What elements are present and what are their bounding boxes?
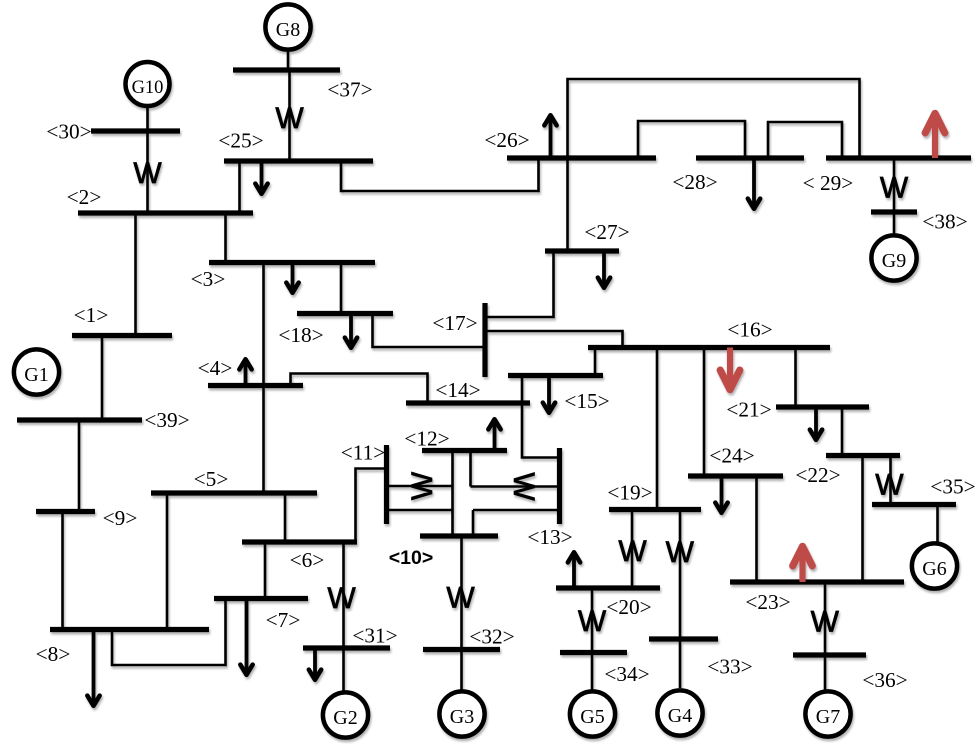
bus 11 bar <box>384 445 389 524</box>
svg-text:G5: G5 <box>580 706 604 728</box>
wire bus 8 to bus 7 <box>112 599 226 666</box>
svg-text:G8: G8 <box>276 19 300 41</box>
bus 6 bar <box>242 539 357 544</box>
svg-text:<30>: <30> <box>46 120 91 144</box>
bus 19 bar <box>609 507 701 512</box>
bus 33 bar <box>649 636 718 641</box>
wire bus 28 to bus 29 <box>768 122 842 158</box>
arrow red bus 29 <box>925 113 945 158</box>
svg-text:G4: G4 <box>668 705 692 727</box>
generator G9 <box>871 235 916 280</box>
bus 31 bar <box>303 645 390 650</box>
load arrow red bus 16 <box>720 348 740 390</box>
svg-text:<21>: <21> <box>726 398 771 422</box>
generator G2 <box>323 692 368 737</box>
svg-text:<24>: <24> <box>709 444 754 468</box>
bus 1 bar <box>72 333 172 338</box>
wire bus 15 to bus 14 to bus 13 <box>522 376 560 458</box>
generator G6 <box>912 543 957 588</box>
arrow injection bus 12 <box>488 419 500 450</box>
wire bus 13 to bus 10 arm <box>473 509 560 512</box>
bus 27 bar <box>545 248 619 253</box>
bus 20 bar <box>556 585 660 590</box>
bus 4 bar <box>208 383 303 388</box>
svg-text:G9: G9 <box>882 250 906 272</box>
bus 23 bar <box>730 579 904 584</box>
svg-text:W: W <box>618 535 647 568</box>
wire bus 26 to bus 29 (top link) <box>568 79 860 158</box>
svg-text:<23>: <23> <box>745 590 790 614</box>
svg-text:W: W <box>880 172 909 205</box>
wire bus 3 to bus 4 to bus 5 <box>262 263 265 494</box>
wire bus 37 to bus 25 (via transformer) <box>288 70 291 161</box>
wire bus 23 to bus 36 to G7 <box>824 582 827 691</box>
svg-text:<18>: <18> <box>278 323 323 347</box>
load arrow bus 18 <box>345 314 357 348</box>
bus 8 bar <box>50 627 209 632</box>
bus 32 bar <box>423 647 500 652</box>
wire bus 10 to bus 32 to G3 <box>460 536 463 692</box>
svg-text:G7: G7 <box>816 706 840 728</box>
generator G3 <box>439 691 484 736</box>
wire bus 17 to bus 27 <box>485 251 554 317</box>
arrow red bus 23 <box>793 546 813 582</box>
bus 36 bar <box>793 652 866 657</box>
load arrow bus 25 <box>255 161 267 194</box>
wire bus 16 to bus 15 <box>594 348 597 376</box>
svg-text:<3>: <3> <box>191 267 226 291</box>
bus 35 bar <box>872 502 956 507</box>
wire bus 4 to bus 14 <box>291 374 428 404</box>
svg-text:W: W <box>446 582 475 615</box>
bus 16 bar <box>588 345 830 350</box>
svg-text:<39>: <39> <box>144 408 189 432</box>
svg-text:<37>: <37> <box>327 78 372 102</box>
svg-text:<5>: <5> <box>194 467 229 491</box>
svg-text:<2>: <2> <box>67 185 102 209</box>
bus 30 bar <box>91 128 180 133</box>
svg-text:<26>: <26> <box>484 128 529 152</box>
svg-text:W: W <box>275 102 304 135</box>
bus 9 bar <box>36 509 95 514</box>
svg-text:<4>: <4> <box>198 356 233 380</box>
wire bus 39 to bus 9 <box>78 420 81 512</box>
wire bus 6 to bus 11 <box>356 469 387 543</box>
svg-text:G10: G10 <box>132 78 164 98</box>
svg-text:<6>: <6> <box>290 548 325 572</box>
load arrow bus 15 <box>543 376 555 413</box>
svg-text:W: W <box>133 157 162 190</box>
svg-text:<31>: <31> <box>352 624 397 648</box>
svg-text:<25>: <25> <box>218 129 263 153</box>
bus 15 bar <box>508 373 603 378</box>
svg-text:<7>: <7> <box>266 608 301 632</box>
bus 25 bar <box>224 158 373 163</box>
wire bus 25 to bus 2 <box>238 161 241 213</box>
bus 38 bar <box>871 209 917 214</box>
svg-text:<32>: <32> <box>469 625 514 649</box>
wire bus 12 to bus 13 (transformer arm) <box>471 485 560 488</box>
wire bus 1 to bus 39 <box>101 336 104 421</box>
bus 13 bar <box>557 448 562 524</box>
wire bus 22 to bus 23 <box>861 456 864 583</box>
wire bus 6 to bus 31 to G2 <box>342 542 345 692</box>
wire G8 to bus 37 <box>287 49 290 70</box>
svg-text:<10>: <10> <box>389 547 433 569</box>
wire bus 29 to bus 38 to G9 <box>893 158 896 238</box>
svg-text:<28>: <28> <box>672 170 717 194</box>
wire bus 19 to bus 20 <box>631 510 634 589</box>
svg-text:W: W <box>406 471 439 500</box>
generator G10 <box>126 62 170 106</box>
wire bus 21 to bus 22 <box>841 407 844 456</box>
wire bus 18 to bus 17 <box>373 314 486 348</box>
svg-text:<1>: <1> <box>74 303 109 327</box>
generator G8 <box>265 4 310 49</box>
wire bus 9 to bus 8 <box>61 512 64 630</box>
svg-text:<11>: <11> <box>341 441 386 465</box>
svg-text:<20>: <20> <box>606 595 651 619</box>
svg-text:<36>: <36> <box>862 668 907 692</box>
svg-text:<17>: <17> <box>432 311 477 335</box>
svg-text:W: W <box>507 472 540 501</box>
load arrow bus 24 <box>715 476 727 513</box>
arrow injection bus 4 <box>239 359 251 385</box>
wire bus 3 to bus 18 <box>340 263 343 314</box>
wire bus 12 right stem <box>469 451 472 487</box>
wire bus 25 to bus 26 <box>341 158 539 191</box>
bus 34 bar <box>560 650 627 655</box>
generator G7 <box>805 691 850 736</box>
svg-text:<19>: <19> <box>607 481 652 505</box>
wire bus 10 right stem <box>472 510 475 536</box>
svg-text:W: W <box>327 582 356 615</box>
bus 21 bar <box>776 404 869 409</box>
svg-text:<12>: <12> <box>404 427 449 451</box>
wire bus 11 to bus 12 (transformer arm) <box>387 485 453 488</box>
load arrow bus 31 <box>309 648 321 680</box>
wire bus 11 to bus 10 arm <box>387 509 453 512</box>
bus 22 bar <box>826 453 900 458</box>
bus 39 bar <box>17 417 142 422</box>
wire bus 2 to bus 3 <box>224 213 227 263</box>
svg-text:G1: G1 <box>24 364 48 386</box>
wire bus 5 to bus 6 <box>284 493 287 542</box>
wire bus 35 to G6 <box>936 505 939 544</box>
wire G10 to bus 2 (via bus 30, transformer) <box>146 105 149 213</box>
svg-text:<8>: <8> <box>36 642 71 666</box>
wire bus 17 to bus 16 <box>485 331 623 348</box>
load arrow bus 28 <box>748 158 760 209</box>
bus 24 bar <box>688 473 783 478</box>
generator G1 <box>14 349 59 394</box>
load arrow bus 21 <box>810 407 822 440</box>
svg-text:<13>: <13> <box>527 525 572 549</box>
bus 5 bar <box>151 490 317 495</box>
wire bus 26 to bus 27 <box>566 158 569 251</box>
wire bus 12 left stem <box>451 451 454 537</box>
bus 3 bar <box>209 260 375 265</box>
bus 26 bar <box>507 155 656 160</box>
svg-text:<33>: <33> <box>707 655 752 679</box>
svg-text:W: W <box>811 606 840 639</box>
bus 28 bar <box>696 155 804 160</box>
wire bus 6 to bus 7 <box>264 542 267 599</box>
wire bus 5 to bus 8 <box>166 493 169 630</box>
svg-text:<16>: <16> <box>727 318 772 342</box>
wire bus 20 to bus 34 to G5 <box>591 588 594 691</box>
arrow injection bus 26 <box>544 115 556 158</box>
bus 29 bar <box>826 155 971 160</box>
svg-text:<22>: <22> <box>795 463 840 487</box>
svg-text:<14>: <14> <box>435 378 480 402</box>
svg-text:W: W <box>875 468 904 501</box>
svg-text:<34>: <34> <box>604 662 649 686</box>
bus 12 bar <box>422 448 507 453</box>
generator G5 <box>570 691 615 736</box>
svg-text:<35>: <35> <box>930 475 975 499</box>
bus 2 bar <box>78 210 253 215</box>
wire bus 16 to bus 21 <box>794 348 797 408</box>
bus 7 bar <box>214 596 308 601</box>
svg-text:G6: G6 <box>922 558 946 580</box>
bus 14 bar <box>406 400 530 405</box>
load arrow bus 8 <box>87 630 99 706</box>
load arrow bus 3 <box>286 263 298 293</box>
wire bus 24 to bus 23 <box>755 476 758 582</box>
arrow injection bus 20 <box>568 552 580 588</box>
bus 18 bar <box>297 311 393 316</box>
svg-text:< 29>: < 29> <box>803 171 854 195</box>
load arrow bus 27 <box>598 251 610 288</box>
bus 37 bar <box>233 67 340 72</box>
svg-text:W: W <box>578 605 607 638</box>
svg-text:G3: G3 <box>450 706 474 728</box>
wire bus 2 to bus 1 <box>134 213 137 336</box>
svg-text:G2: G2 <box>333 707 357 729</box>
wire bus 22 to bus 35 <box>889 456 892 505</box>
svg-text:<27>: <27> <box>584 220 629 244</box>
svg-text:<15>: <15> <box>564 389 609 413</box>
svg-text:W: W <box>666 536 695 569</box>
svg-text:<38>: <38> <box>922 210 967 234</box>
load arrow bus 7 <box>240 599 252 675</box>
wire bus 16 to bus 19 <box>656 348 659 510</box>
bus 10 bar <box>420 533 498 538</box>
svg-text:<9>: <9> <box>103 506 138 530</box>
bus 17 bar <box>482 303 487 377</box>
wire bus 19 to bus 33 to G4 <box>679 510 682 689</box>
wire bus 16 to bus 24 <box>703 348 706 477</box>
wire bus 26 to bus 28 <box>638 121 745 158</box>
generator G4 <box>657 690 702 735</box>
